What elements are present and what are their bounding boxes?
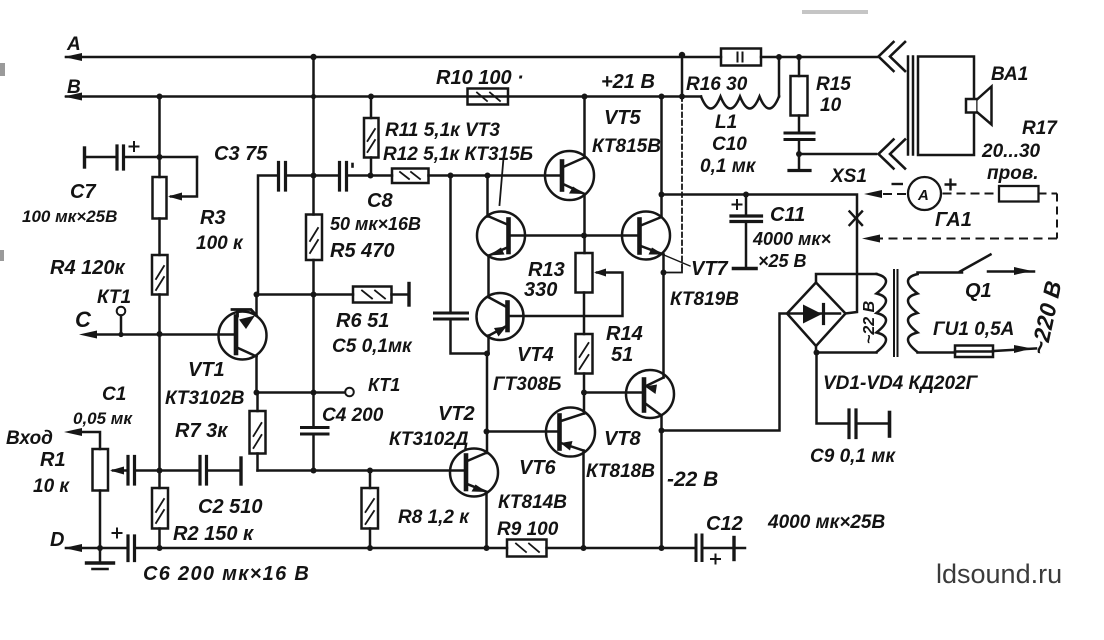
transistor VT7 emitter arrow (649, 248, 664, 255)
junction R1 bottom rail D (97, 545, 103, 551)
resistor R7 body (250, 411, 266, 454)
transistor VT6 circle (546, 408, 595, 457)
resistor R15 body (791, 76, 808, 116)
svg-text:КТ3102Д: КТ3102Д (389, 429, 469, 450)
transistor VT6 collector diagonal (560, 414, 585, 422)
resistor R9 hatch (516, 544, 539, 553)
junction R14 bottom / VT8 base (581, 390, 587, 396)
wire bridge bottom to secondary (816, 346, 877, 353)
wire R6 to terminal (392, 293, 408, 296)
resistor R5 body (306, 215, 322, 261)
svg-text:С9 0,1 мк: С9 0,1 мк (810, 446, 896, 467)
svg-text:R5 470: R5 470 (330, 240, 395, 262)
transistor VT4 circle (477, 293, 524, 340)
svg-text:L1: L1 (715, 112, 737, 133)
ammeter GA1 minus sign (892, 183, 904, 185)
potentiometer R3 wiper wire (171, 157, 197, 197)
wire long vertical x314 (A rail to C4) (312, 57, 315, 471)
junction R11 bottom node (368, 173, 374, 179)
wire C10 bottom (798, 141, 801, 168)
junction C4 top node (311, 390, 317, 396)
wire C2 to end bar (207, 469, 240, 472)
svg-text:10 к: 10 к (33, 476, 70, 497)
220V top arrow (1014, 267, 1032, 275)
svg-text:R9 100: R9 100 (497, 519, 559, 540)
svg-text:100 мк×25В: 100 мк×25В (22, 207, 117, 226)
capacitor C7 left terminal bar (83, 148, 86, 167)
resistor R12 body (392, 169, 429, 184)
transistor VT2 emitter diagonal (466, 484, 487, 493)
wire VT5 emitter down to R13 (583, 194, 586, 253)
junction rail B x314 (311, 94, 316, 99)
speaker cable verticals (908, 57, 913, 155)
junction rail A R15 (796, 54, 802, 60)
capacitor C11 bottom terminal bar (734, 267, 757, 271)
svg-text:ГU1 0,5А: ГU1 0,5А (933, 319, 1014, 340)
transistor VT5 emitter arrow (569, 187, 585, 195)
capacitor C1 plates (128, 457, 135, 485)
node A arrow tip (64, 53, 82, 61)
junction rail B corner (659, 94, 665, 100)
svg-text:R7 3к: R7 3к (175, 420, 228, 442)
svg-text:R1: R1 (40, 449, 66, 471)
junction output node (661, 270, 667, 276)
transistor VT7 collector diagonal (640, 217, 662, 226)
wire primary bottom to fuse (918, 351, 956, 354)
svg-text:330: 330 (524, 279, 557, 301)
transistor VT2 base bar (464, 456, 469, 490)
terminal KT1 circle (117, 307, 126, 316)
transistor VT7 base bar (637, 220, 642, 253)
capacitor C11 plates (731, 216, 762, 222)
wire XS1 lower feed (799, 153, 876, 156)
capacitor C6 plates (128, 536, 135, 561)
capacitor C9 plates (849, 410, 856, 438)
transistor VT2 circle (450, 449, 498, 497)
transistor VT8 collector diagonal (644, 403, 662, 416)
node B arrowhead (66, 96, 80, 98)
svg-text:-22 В: -22 В (667, 468, 718, 491)
capacitor C12 plus sign (711, 555, 720, 564)
ammeter GA1 dashed wire left (869, 193, 906, 195)
capacitor C10 plates (785, 133, 814, 140)
wire VT3 base to node (509, 234, 638, 237)
transistor VT4 base bar (505, 303, 510, 331)
transistor VT8 circle (626, 370, 674, 418)
resistor R8 stubs (369, 471, 372, 549)
capacitor C2 plates (200, 457, 207, 485)
junction L1 link node (679, 94, 685, 100)
wire C8 to R12 (347, 174, 393, 177)
transistor VT7 emitter diagonal (640, 246, 664, 255)
transistor VT1 circle (219, 312, 267, 360)
svg-text:ВА1: ВА1 (991, 64, 1028, 85)
wire VT6 emitter down to rail (582, 451, 585, 549)
transistor VT1 base bar (234, 317, 239, 354)
junction VT5 collector rail B (582, 94, 588, 100)
terminal KT1-2 circle (345, 388, 354, 397)
svg-text:С: С (75, 307, 92, 332)
wire R14 to VT8 base node (583, 374, 586, 393)
svg-text:XS1: XS1 (830, 166, 867, 187)
svg-text:D: D (50, 529, 64, 551)
svg-text:С2 510: С2 510 (198, 496, 263, 518)
svg-text:VD1-VD4 КД202Г: VD1-VD4 КД202Г (823, 373, 979, 394)
measurement loop arrow (862, 235, 880, 243)
wire VT6 base (487, 430, 560, 433)
resistor R11 hatch (368, 129, 376, 152)
junction bridge bottom (814, 350, 820, 356)
diode bridge diode triangle (803, 305, 822, 324)
svg-text:R3: R3 (200, 207, 226, 229)
diode bridge VD1-VD4 diamond (787, 283, 846, 347)
potentiometer R1 body (93, 449, 109, 491)
wire C12 right stub (734, 547, 745, 550)
wire VT2 base from input network (258, 469, 465, 472)
junction R8 bottom node (367, 545, 373, 551)
wire L1 right to rail A (778, 57, 781, 97)
junction C1-C2 node (157, 468, 163, 474)
svg-text:0,1 мк: 0,1 мк (700, 156, 757, 177)
svg-text:VT2: VT2 (438, 403, 475, 425)
svg-text:КТ814В: КТ814В (498, 492, 567, 513)
resistor R7 stubs (256, 393, 259, 471)
dashed wire measurement loop right vertical (1056, 194, 1058, 239)
resistor R10 body (on rail B) (468, 89, 509, 105)
potentiometer R1 wiper arrow (110, 467, 124, 475)
svg-text:50 мк×16В: 50 мк×16В (330, 214, 421, 234)
wire elbow dashed link to output (665, 268, 682, 273)
resistor R12 hatch (400, 172, 420, 179)
capacitor C7 plus sign (130, 142, 139, 151)
resistor R17 body (999, 186, 1039, 202)
junction VT2 emitter rail (484, 545, 490, 551)
switch Q1 blade (960, 255, 991, 272)
fuse FU1 body (955, 346, 993, 358)
svg-text:4000 мк×25В: 4000 мк×25В (767, 512, 885, 533)
resistor R4 body (152, 255, 168, 295)
wire VT8 base (584, 391, 642, 394)
wire C12 (702, 547, 733, 550)
transistor VT5 circle (545, 151, 594, 200)
scan smudge left 2 (0, 250, 4, 261)
leader КТ315Б label to VT3 (500, 158, 504, 205)
svg-text:51: 51 (611, 344, 633, 366)
svg-text:КТ818В: КТ818В (586, 461, 655, 482)
wire VT4 emitter down elbow (487, 336, 490, 354)
resistor R6 body (353, 287, 392, 303)
transformer T1 core lines (894, 270, 898, 356)
resistor R5 hatch (310, 228, 318, 253)
capacitor C12 plates (696, 535, 702, 561)
junction C3/C8 node x314 (311, 173, 317, 179)
junction rail A link node (679, 52, 685, 58)
wire output node vertical (662, 255, 665, 378)
svg-text:В: В (67, 77, 81, 98)
ground symbol bar 1 (87, 561, 114, 564)
wire PSU +21V feed (662, 195, 858, 314)
node B arrow tip (64, 93, 82, 101)
junction rail A R16 right (776, 54, 782, 60)
svg-text:С7: С7 (70, 181, 96, 203)
wire C9 to terminal (856, 422, 888, 425)
junction PSU node (659, 192, 665, 198)
capacitor C3 plates (279, 163, 286, 191)
resistor R16 inner ticks (738, 53, 743, 62)
svg-text:100 к: 100 к (196, 233, 244, 254)
resistor R8 hatch (366, 499, 375, 524)
node A arrowhead (66, 56, 80, 58)
potentiometer R13 body (576, 253, 593, 293)
resistor R16 body (on rail A) (721, 49, 761, 66)
wire VT3 collector branch (486, 176, 489, 217)
resistor R14 body (576, 334, 593, 374)
svg-text:R15: R15 (816, 74, 851, 95)
connector XS1 lower chevrons (879, 140, 906, 169)
junction R2 bottom rail D (157, 545, 163, 551)
wire R12 to VT5 base (429, 174, 560, 177)
svg-text:×25 В: ×25 В (758, 251, 807, 271)
junction VT5 emitter / VT3 base node (581, 233, 587, 239)
wire VT4 base feedback (508, 273, 623, 317)
svg-text:С12: С12 (706, 513, 743, 535)
svg-text:КТ815В: КТ815В (592, 136, 661, 157)
connector XS1 upper chevrons (879, 42, 906, 71)
junction VT6 base node (484, 429, 490, 435)
svg-text:R2 150 к: R2 150 к (173, 523, 254, 545)
wire VT8 collector down (660, 416, 663, 549)
terminal bar after R6 (407, 284, 410, 306)
svg-text:ГА1: ГА1 (935, 209, 972, 231)
transistor VT5 emitter diagonal (562, 184, 585, 195)
svg-text:R4 120к: R4 120к (50, 257, 125, 279)
wire VT2 emitter down (485, 492, 488, 548)
svg-text:R13: R13 (528, 259, 565, 281)
svg-text:VT1: VT1 (188, 359, 225, 381)
wire dashed link A rail to output node (681, 97, 683, 268)
wire -22V link to bridge (662, 314, 788, 431)
wire VT1 emitter down (255, 357, 258, 393)
svg-text:С8: С8 (367, 190, 393, 212)
transistor VT8 emitter diagonal (644, 378, 664, 388)
capacitor C8 plates (340, 163, 347, 191)
wire VT1 collector node to R6 node (257, 293, 354, 296)
dashed wire R17 to corner (1039, 193, 1058, 195)
junction VT3 collector node (485, 173, 491, 179)
wire rail D (-22V) bottom (66, 547, 695, 550)
fuse FU1 through line (955, 350, 993, 353)
ground symbol stub (99, 548, 102, 561)
capacitor C12 right bar (732, 538, 735, 560)
svg-text:С5 0,1мк: С5 0,1мк (332, 336, 413, 357)
svg-text:R10 100 ·: R10 100 · (436, 67, 524, 89)
svg-text:КТ1: КТ1 (368, 375, 400, 395)
resistor R9 body (507, 540, 547, 557)
wire C3 elbow from VT1 collector (258, 176, 277, 295)
wire R11 stubs (370, 97, 373, 176)
junction rail A x314 (310, 54, 316, 60)
svg-text:С3 75: С3 75 (214, 143, 268, 165)
wire A-to-L1 link vertical (681, 55, 684, 97)
transistor VT3 emitter arrow (489, 248, 505, 256)
wire VT3 emitter to VT4 collector (487, 256, 490, 298)
resistor R7 hatch (254, 423, 262, 448)
svg-text:С6 200 мк×16 В: С6 200 мк×16 В (143, 563, 310, 585)
transistor VT3 base bar (506, 220, 511, 253)
wire C3 to C8 (286, 174, 339, 177)
capacitor C4 plates (302, 428, 329, 435)
capacitor C5 plates (435, 313, 468, 319)
wire C5 branch vertical (449, 176, 452, 312)
transformer T1 primary winding (908, 274, 918, 352)
resistor R8 body (362, 488, 379, 529)
dashed wire measurement loop bottom (868, 238, 1057, 240)
wire bridge bottom to C9 (817, 353, 848, 424)
speaker BA1 magnet rect (966, 99, 978, 113)
svg-text:VT7: VT7 (691, 258, 729, 280)
svg-text:R17: R17 (1022, 118, 1058, 139)
wire C7 to node (124, 156, 198, 159)
svg-text:С11: С11 (770, 204, 805, 226)
wire VT1 collector up to node (255, 295, 258, 316)
junction C5 top node (448, 173, 454, 179)
resistor R11 body (364, 118, 379, 158)
transistor VT4 emitter diagonal (489, 326, 508, 336)
ammeter GA1 arrow left (864, 190, 882, 198)
transistor VT2 collector diagonal (466, 453, 487, 462)
svg-text:R8 1,2 к: R8 1,2 к (398, 507, 470, 528)
resistor R2 hatch (156, 499, 164, 523)
terminal bar after C2 (239, 458, 242, 484)
wire primary top to switch (918, 273, 963, 275)
transistor VT2 emitter arrow (472, 485, 488, 493)
svg-text:КТ3102В: КТ3102В (165, 388, 245, 409)
transistor VT8 emitter arrow (PNP into base) (645, 385, 657, 395)
inductor L1 coil (701, 97, 779, 109)
junction R4 bottom / C input (157, 331, 163, 337)
junction C7 node (157, 154, 163, 160)
svg-text:~22 В: ~22 В (861, 301, 878, 344)
junction C4 bottom node (311, 468, 317, 474)
junction VT8 collector rail (659, 545, 665, 551)
resistor R15 stub top (798, 57, 801, 76)
220V bottom arrow (1014, 345, 1032, 353)
diode bridge cathode bar (822, 305, 825, 324)
resistor R6 hatch (362, 291, 385, 299)
svg-text:0,05 мк: 0,05 мк (73, 409, 133, 428)
leader VT7 label (664, 255, 690, 266)
wire VT2 collector branch (486, 354, 489, 454)
wire input Вход (80, 432, 100, 449)
transistor VT6 base bar (557, 416, 562, 449)
junction R8 top node (367, 468, 373, 474)
junction C11 top (743, 192, 749, 198)
junction KT1 stub (118, 332, 123, 337)
transistor VT5 collector diagonal (562, 158, 585, 168)
wire VT7 collector up (660, 195, 663, 218)
svg-text:С4 200: С4 200 (322, 405, 384, 426)
potentiometer R1 wiper wire (113, 469, 127, 472)
transistor VT3 collector diagonal (489, 217, 509, 226)
resistor R15 stub bottom (798, 116, 801, 132)
svg-text:ГТ308Б: ГТ308Б (493, 374, 561, 395)
transistor VT3 emitter diagonal (489, 247, 509, 256)
svg-text:R16 30: R16 30 (686, 74, 748, 95)
wire bridge top to secondary (816, 274, 877, 283)
wire VT6 collector up to node (583, 393, 586, 414)
wire VT5 collector to rail B (583, 97, 586, 158)
transistor VT5 base bar (560, 162, 565, 190)
capacitor C6 plus sign (113, 529, 122, 538)
svg-text:20...30: 20...30 (981, 141, 1041, 162)
junction VT8 collector -22V (659, 428, 665, 434)
transistor VT6 emitter arrow (PNP into base) (561, 441, 573, 451)
transistor VT1 emitter diagonal (238, 348, 257, 357)
wire C1 to C2 (135, 469, 199, 472)
junction R11 top rail B (368, 94, 374, 100)
capacitor C11 top stub (745, 195, 748, 215)
svg-text:R14: R14 (606, 323, 643, 345)
ammeter GA1 circle (908, 177, 941, 210)
svg-text:A: A (917, 187, 929, 204)
wire rail A top (66, 56, 877, 59)
transformer T1 secondary winding (877, 274, 887, 352)
svg-text:R6 51: R6 51 (336, 310, 389, 332)
svg-text:КТ819В: КТ819В (670, 289, 739, 310)
node D arrow tip (64, 544, 82, 552)
ammeter GA1 plus sign (945, 179, 957, 191)
svg-text:С1: С1 (102, 384, 126, 405)
capacitor C11 bottom stub (745, 223, 748, 267)
junction VT6 emitter rail (581, 545, 587, 551)
svg-text:10: 10 (820, 95, 842, 116)
speaker BA1 horn (978, 87, 992, 125)
wire R13 to R14 (583, 293, 586, 335)
junction C5/VT4 emitter node (484, 351, 490, 357)
resistor R4 hatch (156, 266, 164, 290)
resistor R2 body (152, 488, 168, 529)
capacitor C9 terminal bar (888, 413, 892, 437)
junction VT1 collector node (254, 292, 260, 298)
transistor VT1 collector elbow (232, 310, 257, 317)
X mark on PSU line (850, 212, 863, 226)
svg-text:Вход: Вход (6, 428, 53, 449)
junction node B x159 (157, 94, 163, 100)
wire rail B (+21V) (66, 97, 662, 195)
ground symbol bar 2 (93, 568, 108, 571)
wire long vertical x160 (B rail to D rail) (158, 97, 161, 549)
node C arrow tip (79, 331, 97, 339)
R13 wiper arrow tip (594, 269, 606, 277)
capacitor C8 polarity dot (351, 164, 354, 167)
resistor R10 hatch (477, 93, 500, 102)
capacitor C11 plus sign (733, 200, 742, 209)
svg-text:пров.: пров. (987, 163, 1039, 184)
wire switch to 220V top (988, 270, 1034, 273)
svg-text:+21 В: +21 В (601, 71, 655, 93)
wire fuse to 220V bottom (993, 349, 1036, 352)
junction VT1 emitter node (254, 390, 260, 396)
transistor VT7 circle (622, 212, 670, 260)
svg-text:4000 мк×: 4000 мк× (752, 229, 831, 249)
transistor VT3 circle (477, 212, 525, 260)
resistor R14 hatch (580, 343, 589, 369)
wire C7 left (85, 156, 116, 159)
svg-text:VT5: VT5 (604, 107, 642, 129)
svg-text:VT4: VT4 (517, 344, 554, 366)
scan smudge top (802, 10, 868, 14)
wire C5 bottom elbow (451, 321, 488, 354)
